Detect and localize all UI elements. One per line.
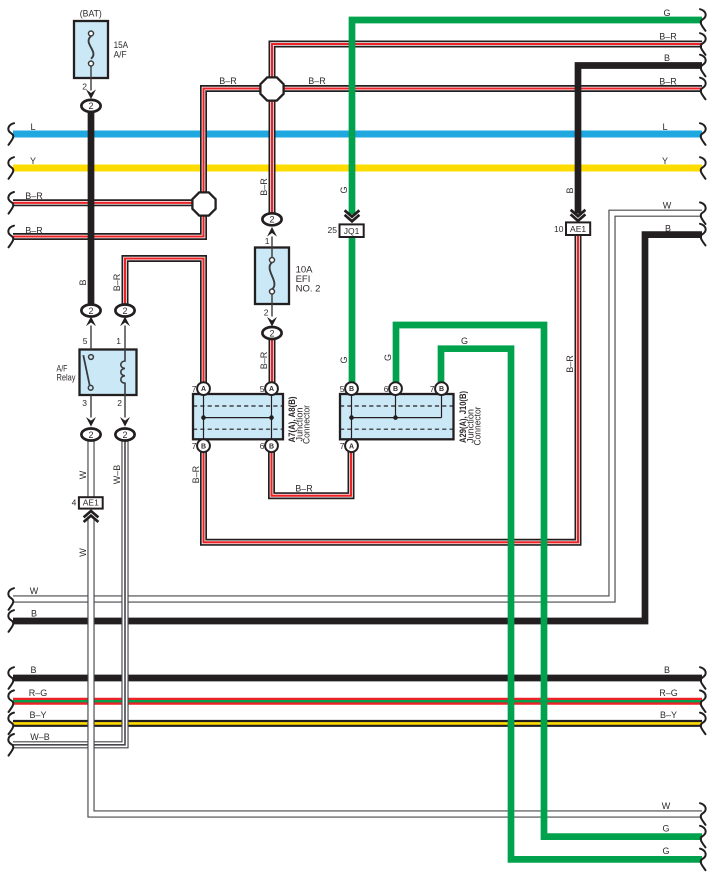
- squiggle left R-G: [8, 690, 14, 712]
- wire B-R left bus y203: [13, 199, 204, 206]
- pin 6B right-jc: [384, 382, 402, 395]
- squiggle left W-B: [8, 734, 14, 756]
- label W vert below AE1-4: [78, 548, 88, 557]
- label B-R vert relay1: [112, 273, 122, 291]
- chevron into JQ1: [345, 210, 360, 221]
- svg-text:B: B: [201, 443, 206, 450]
- svg-text:4: 4: [72, 498, 77, 508]
- squiggle right R-G: [700, 690, 706, 712]
- chevron into AE1-10: [571, 210, 586, 221]
- label efi pin1: [265, 236, 270, 246]
- svg-text:1: 1: [265, 236, 270, 246]
- svg-text:G: G: [461, 336, 468, 346]
- wire B-R relay pin1 to 7A: [125, 259, 204, 383]
- svg-text:R–G: R–G: [29, 688, 48, 698]
- fuse 10A EFI NO.2 body: [255, 248, 289, 305]
- pin 7A left-jc: [192, 382, 210, 395]
- label B-R vert efi bottom: [259, 351, 269, 369]
- label G top right: [663, 8, 670, 18]
- svg-text:B–R: B–R: [295, 484, 313, 494]
- label Y right: [662, 156, 668, 166]
- label 15A A/F: [114, 40, 129, 61]
- label W-B vert: [112, 465, 122, 485]
- svg-text:5: 5: [83, 336, 88, 346]
- svg-text:2: 2: [88, 430, 93, 440]
- svg-text:Connector: Connector: [302, 405, 312, 444]
- svg-text:B: B: [78, 279, 88, 285]
- label R-G left: [29, 688, 48, 698]
- svg-text:L: L: [662, 122, 667, 132]
- squiggle right W y814: [700, 803, 706, 825]
- svg-text:B–R: B–R: [659, 32, 677, 42]
- svg-text:B–R: B–R: [191, 465, 201, 483]
- squiggle left B-Y: [8, 713, 14, 735]
- svg-text:2: 2: [122, 306, 127, 316]
- label B vert ae1-10: [565, 187, 575, 193]
- chevron into AE1-4: [84, 511, 99, 522]
- squiggle right G y859: [700, 849, 706, 871]
- svg-text:2: 2: [117, 398, 122, 408]
- squiggle right W y213: [700, 202, 706, 224]
- wire B bottom bus: [13, 675, 702, 682]
- svg-text:B–Y: B–Y: [29, 710, 46, 720]
- svg-text:7: 7: [430, 384, 435, 394]
- svg-text:Connector: Connector: [473, 407, 483, 446]
- svg-text:10: 10: [554, 224, 564, 234]
- squiggle left B-R y236: [8, 226, 14, 248]
- svg-text:B–R: B–R: [25, 226, 43, 236]
- svg-text:B–R: B–R: [112, 273, 122, 291]
- wire L blue bus: [13, 131, 702, 138]
- squiggle right B-Y: [700, 713, 706, 735]
- label G vert 6B: [383, 354, 393, 361]
- wire R-G bottom bus: [13, 698, 702, 705]
- squiggle right B-R y44: [700, 33, 706, 55]
- label B-R y88 labels: [219, 76, 677, 87]
- svg-text:B–R: B–R: [659, 77, 677, 87]
- svg-text:B: B: [664, 53, 670, 63]
- wire W-B relay pin2 down: [13, 440, 125, 744]
- svg-text:W: W: [78, 548, 88, 557]
- svg-text:W: W: [30, 586, 39, 596]
- junction octagon J1: [260, 77, 283, 100]
- label B right y234: [665, 223, 671, 233]
- svg-text:A/F: A/F: [114, 50, 127, 61]
- pin 7B left-jc: [192, 439, 210, 452]
- label B bottom right: [664, 665, 670, 675]
- svg-text:B: B: [439, 386, 444, 393]
- svg-text:A: A: [201, 386, 206, 393]
- label B-R y236 left: [25, 226, 43, 236]
- svg-text:A: A: [349, 443, 354, 450]
- junction octagon J2: [192, 192, 215, 215]
- label W right y213: [663, 201, 672, 211]
- label fuse15A pin2: [82, 81, 87, 91]
- svg-text:7: 7: [192, 384, 197, 394]
- junction connector A7(A) A8(B) body: [193, 394, 283, 439]
- label B bottom left: [30, 665, 36, 675]
- label B-R vert efi top: [259, 178, 269, 196]
- svg-text:2: 2: [122, 430, 127, 440]
- svg-text:W: W: [662, 801, 671, 811]
- svg-text:3: 3: [82, 398, 87, 408]
- svg-text:G: G: [383, 354, 393, 361]
- label jc-right name: [458, 391, 483, 446]
- connector box JQ1: [328, 224, 364, 237]
- svg-text:AE1: AE1: [570, 224, 586, 234]
- svg-text:Y: Y: [662, 156, 668, 166]
- label B vert fuse: [78, 279, 88, 285]
- label G bottom right 1: [662, 823, 669, 833]
- label B-R y44 right: [659, 32, 677, 42]
- svg-text:7: 7: [340, 441, 345, 451]
- label G vert jq1 bottom: [339, 356, 349, 363]
- svg-text:B–R: B–R: [308, 76, 326, 86]
- relay contact and coil: [83, 326, 125, 418]
- label W left y599: [30, 586, 39, 596]
- svg-text:B: B: [349, 386, 354, 393]
- squiggle right L: [700, 123, 706, 145]
- label W-B left: [30, 732, 50, 742]
- label B y65 right: [664, 53, 670, 63]
- svg-text:G: G: [662, 823, 669, 833]
- svg-text:B: B: [30, 665, 36, 675]
- svg-text:2: 2: [264, 308, 269, 318]
- squiggle left B-R y203: [8, 192, 14, 214]
- label A/F Relay: [57, 364, 76, 383]
- label B-Y right: [660, 710, 677, 720]
- label efi pin2: [264, 308, 269, 318]
- squiggle right B y65: [700, 55, 706, 77]
- svg-text:Relay: Relay: [57, 373, 76, 383]
- svg-text:B: B: [393, 386, 398, 393]
- svg-text:25: 25: [328, 225, 338, 235]
- oval connector relay5: [81, 305, 100, 317]
- junction connector A29(A) J10(B) body: [340, 394, 454, 439]
- relay box A/F Relay body: [80, 350, 137, 396]
- wire Y yellow bus: [13, 165, 702, 172]
- label G bottom right 2: [662, 846, 669, 856]
- pin 5B right-jc: [340, 382, 358, 395]
- label B-R bridge: [295, 484, 313, 494]
- svg-text:2: 2: [82, 81, 87, 91]
- wire G top to JQ1: [352, 20, 702, 214]
- svg-text:B–R: B–R: [565, 355, 575, 373]
- svg-text:G: G: [339, 356, 349, 363]
- label (BAT): [80, 9, 102, 20]
- svg-text:B–R: B–R: [25, 191, 43, 201]
- svg-text:7: 7: [192, 441, 197, 451]
- wire G 6B loop: [396, 325, 702, 837]
- wire G 7B loop: [441, 349, 702, 860]
- svg-text:W: W: [78, 470, 88, 479]
- label W bottom right: [662, 801, 671, 811]
- svg-text:(BAT): (BAT): [80, 9, 102, 20]
- arrow relay pin2: [120, 417, 130, 427]
- svg-text:A: A: [269, 386, 274, 393]
- svg-text:AE1: AE1: [83, 497, 99, 507]
- oval connector relay1: [115, 305, 134, 317]
- svg-text:W–B: W–B: [30, 732, 50, 742]
- label 10A EFI NO.2: [296, 265, 321, 295]
- pin 5A left-jc: [260, 382, 278, 395]
- svg-text:2: 2: [88, 306, 93, 316]
- svg-text:2: 2: [88, 101, 93, 111]
- svg-text:B: B: [565, 187, 575, 193]
- pin 7B right-jc: [430, 382, 448, 395]
- svg-text:W–B: W–B: [112, 465, 122, 485]
- arrow efi pin2: [267, 317, 277, 327]
- wire B-R bus y88: [204, 89, 703, 194]
- squiggle right B y678: [700, 667, 706, 689]
- svg-text:B: B: [664, 665, 670, 675]
- wire B thick fuse to relay: [88, 112, 95, 305]
- label Y left: [30, 156, 36, 166]
- svg-text:NO. 2: NO. 2: [296, 284, 321, 295]
- squiggle right G y20: [700, 9, 706, 31]
- svg-text:G: G: [662, 846, 669, 856]
- label B-R vert 7B down: [191, 465, 201, 483]
- label relay pin2: [117, 398, 122, 408]
- squiggle right B y234: [700, 224, 706, 246]
- squiggle left B y678: [8, 667, 14, 689]
- squiggle right Y: [700, 157, 706, 179]
- label jc-left name: [287, 397, 312, 445]
- wire B thick top right to AE1: [578, 66, 702, 214]
- svg-text:L: L: [30, 122, 35, 132]
- svg-text:B–R: B–R: [219, 76, 237, 86]
- wire G JQ1 to 5B: [349, 237, 356, 382]
- wire B-R top right y44: [272, 44, 702, 213]
- connector box AE1 pin10: [554, 222, 590, 235]
- label B-R y203 left: [25, 191, 43, 201]
- arrow relay pin5: [86, 317, 96, 327]
- label relay pin3: [82, 398, 87, 408]
- svg-text:6: 6: [260, 441, 265, 451]
- oval connector efi1: [262, 213, 281, 225]
- label B-Y left: [29, 710, 46, 720]
- svg-text:B: B: [665, 223, 671, 233]
- svg-text:B: B: [269, 443, 274, 450]
- wire B-Y bottom bus: [13, 720, 702, 727]
- fuse 15A A/F body: [74, 21, 108, 78]
- svg-text:Y: Y: [30, 156, 36, 166]
- svg-text:JQ1: JQ1: [344, 226, 360, 236]
- oval connector relay3: [81, 429, 100, 441]
- svg-text:W: W: [663, 201, 672, 211]
- label W vert above AE1-4: [78, 470, 88, 479]
- label L right: [662, 122, 667, 132]
- label L left: [30, 122, 35, 132]
- label B-R vert x578: [565, 355, 575, 373]
- connector box AE1 pin4: [72, 497, 103, 508]
- svg-text:B–Y: B–Y: [660, 710, 677, 720]
- svg-text:B–R: B–R: [259, 178, 269, 196]
- arrow relay pin1: [120, 317, 130, 327]
- svg-text:5: 5: [340, 384, 345, 394]
- squiggle right G y836: [700, 826, 706, 848]
- arrow fuse15A pin2: [86, 89, 96, 99]
- label relay pin5: [83, 336, 88, 346]
- oval connector fuse15A: [81, 100, 100, 112]
- pin 7A right-jc: [340, 439, 358, 452]
- label G vert jq1 top: [339, 186, 349, 193]
- svg-text:2: 2: [269, 215, 274, 225]
- svg-text:1: 1: [116, 336, 121, 346]
- pin 6B left-jc: [260, 439, 278, 452]
- svg-text:B–R: B–R: [259, 351, 269, 369]
- wire B-R left bus y236 to octagon: [13, 215, 204, 237]
- svg-text:6: 6: [384, 384, 389, 394]
- oval connector efi2: [262, 327, 281, 339]
- svg-text:G: G: [339, 186, 349, 193]
- svg-text:G: G: [663, 8, 670, 18]
- oval connector relay2: [115, 429, 134, 441]
- wire W right loop: [13, 213, 702, 599]
- svg-text:B: B: [31, 609, 37, 619]
- squiggle left Y: [8, 157, 14, 179]
- squiggle right B-R y88: [700, 78, 706, 100]
- wire B right loop: [13, 235, 702, 621]
- wire B-R efi to 5A: [269, 339, 276, 383]
- svg-text:R–G: R–G: [659, 688, 678, 698]
- svg-text:5: 5: [260, 384, 265, 394]
- wire W AE1 to bottom right: [91, 517, 702, 815]
- squiggle left B y621: [8, 610, 14, 632]
- label R-G right: [659, 688, 678, 698]
- squiggle left L: [8, 123, 14, 145]
- label relay pin1: [116, 336, 121, 346]
- label B left y621: [31, 609, 37, 619]
- fuse 10A element: [270, 237, 275, 317]
- wire B-R 6B to 7A bridge: [272, 452, 352, 496]
- wire B-R AE1 down-left-up to 7B: [204, 235, 579, 542]
- wire W relay pin3 to AE1: [87, 440, 94, 497]
- arrow efi pin1: [267, 227, 277, 237]
- fuse 15A element: [89, 31, 94, 91]
- squiggle left W y599: [8, 588, 14, 610]
- svg-text:2: 2: [269, 328, 274, 338]
- label G mid 7B: [461, 336, 468, 346]
- arrow relay pin3: [86, 417, 96, 427]
